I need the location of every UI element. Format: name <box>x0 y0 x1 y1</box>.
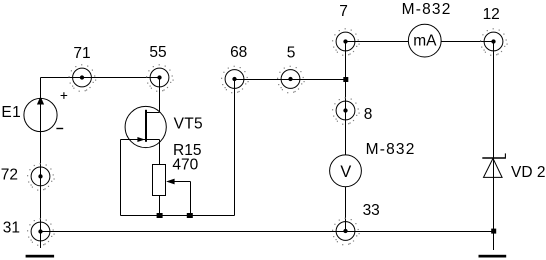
svg-text:31: 31 <box>3 219 20 236</box>
svg-text:33: 33 <box>363 202 380 219</box>
svg-text:72: 72 <box>1 166 18 183</box>
svg-text:71: 71 <box>73 45 90 62</box>
svg-text:470: 470 <box>172 157 198 174</box>
svg-text:E1: E1 <box>1 104 21 121</box>
svg-text:5: 5 <box>287 45 296 62</box>
svg-text:7: 7 <box>339 3 348 20</box>
svg-text:V: V <box>340 163 351 181</box>
svg-text:mA: mA <box>413 33 437 50</box>
svg-text:8: 8 <box>364 106 373 123</box>
svg-text:VD 2: VD 2 <box>511 164 545 181</box>
svg-text:55: 55 <box>149 44 166 61</box>
svg-text:M-832: M-832 <box>402 1 452 18</box>
svg-text:M-832: M-832 <box>366 141 416 158</box>
svg-text:68: 68 <box>230 44 247 61</box>
svg-text:VT5: VT5 <box>174 116 203 133</box>
svg-text:12: 12 <box>483 6 500 23</box>
